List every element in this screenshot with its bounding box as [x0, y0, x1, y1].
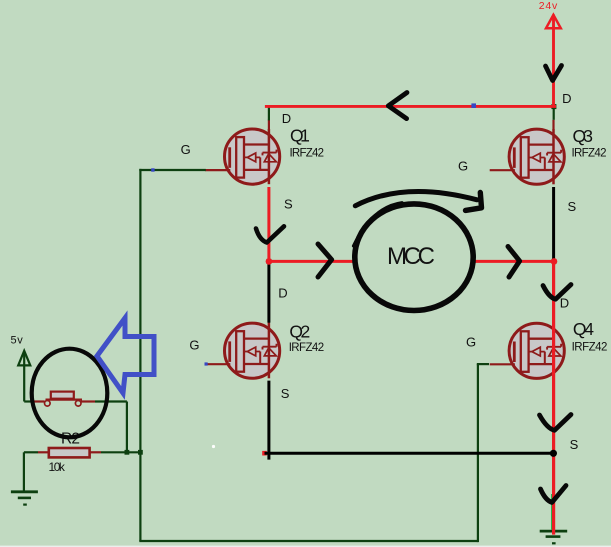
- svg-text:D: D: [282, 111, 291, 126]
- svg-text:G: G: [181, 142, 191, 157]
- svg-text:IRFZ42: IRFZ42: [572, 342, 608, 354]
- svg-text:Q1: Q1: [290, 126, 310, 146]
- svg-text:Q2: Q2: [289, 321, 310, 341]
- svg-text:IRFZ42: IRFZ42: [289, 342, 324, 354]
- svg-text:MCC: MCC: [387, 243, 435, 270]
- svg-text:D: D: [278, 285, 287, 300]
- svg-text:D: D: [562, 91, 571, 106]
- svg-text:G: G: [458, 159, 468, 174]
- svg-text:S: S: [281, 386, 290, 401]
- svg-text:24v: 24v: [539, 0, 558, 12]
- svg-text:D: D: [560, 295, 569, 310]
- svg-text:5v: 5v: [11, 335, 24, 347]
- svg-text:10k: 10k: [49, 460, 66, 474]
- svg-text:Q4: Q4: [573, 319, 594, 339]
- svg-text:S: S: [284, 196, 293, 211]
- svg-text:IRFZ42: IRFZ42: [572, 148, 607, 160]
- svg-text:S: S: [568, 199, 577, 214]
- svg-text:G: G: [189, 337, 199, 352]
- svg-text:S: S: [570, 437, 579, 452]
- svg-text:IRFZ42: IRFZ42: [290, 148, 325, 160]
- svg-text:Q3: Q3: [573, 126, 594, 146]
- svg-text:G: G: [466, 335, 476, 350]
